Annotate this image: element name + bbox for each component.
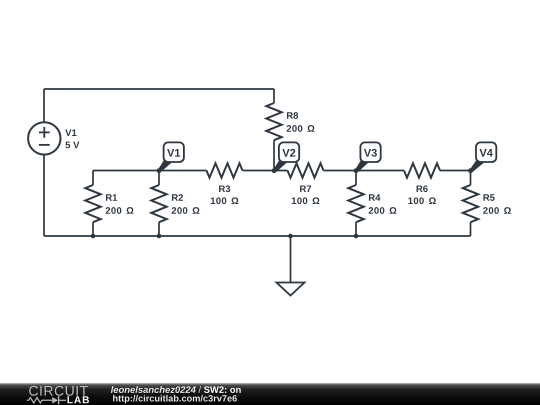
resistor R7 (288, 163, 324, 177)
resistor R4 (348, 171, 363, 237)
resistor R1 (85, 171, 100, 237)
junction dot R4 bottom (354, 234, 359, 239)
wire V1 top lead (43, 89, 45, 122)
wire top rail from V1 to R8 (44, 88, 274, 90)
label R7 name (300, 185, 311, 192)
wire node rail segment R7 to R6 (324, 170, 405, 172)
junction dot ground (288, 234, 293, 239)
label R4 name (369, 194, 380, 201)
label R3 name (219, 185, 230, 192)
resistor R8 (266, 89, 281, 171)
label R6 name (417, 185, 428, 192)
label R5 name (483, 194, 494, 201)
junction dot R1 bottom (91, 234, 96, 239)
label R8 value 200 Ω (287, 125, 315, 132)
label R4 value 200 Ω (369, 207, 397, 214)
node V2 (272, 142, 300, 173)
wire node rail segment R6 to V4 (440, 170, 471, 172)
junction dot R2 bottom (157, 234, 162, 239)
node V1 (157, 142, 184, 173)
wire node rail segment R3 to R7 (243, 170, 288, 172)
wire V1 bottom lead (43, 155, 45, 236)
label R1 value 200 Ω (106, 207, 134, 214)
label R5 value 200 Ω (483, 207, 511, 214)
footer url line (113, 395, 237, 404)
node V4 (468, 142, 496, 173)
voltage source V1 (28, 122, 60, 154)
resistor R3 (207, 163, 243, 177)
label R8 name (287, 112, 298, 119)
resistor R5 (463, 171, 478, 237)
label R7 value 100 Ω (292, 197, 320, 204)
CircuitLab logo CIRCUIT (29, 386, 88, 396)
footer author line (111, 386, 241, 393)
label R2 value 200 Ω (172, 207, 200, 214)
resistor R2 (151, 171, 166, 237)
ground (277, 236, 305, 296)
CircuitLab logo LAB (67, 396, 89, 403)
wire bottom rail (44, 235, 471, 237)
wire node rail segment R1 to R3 (93, 170, 207, 172)
label R6 value 100 Ω (408, 197, 436, 204)
resistor R6 (404, 163, 440, 177)
CircuitLab logo resistor glyph (27, 396, 66, 404)
label R1 name (106, 194, 117, 201)
footer bar (0, 383, 540, 405)
label V1 source name (65, 129, 76, 136)
label R3 value 100 Ω (211, 197, 239, 204)
node V3 (354, 142, 381, 173)
label V1 source value 5 V (65, 142, 79, 149)
label R2 name (172, 194, 183, 201)
